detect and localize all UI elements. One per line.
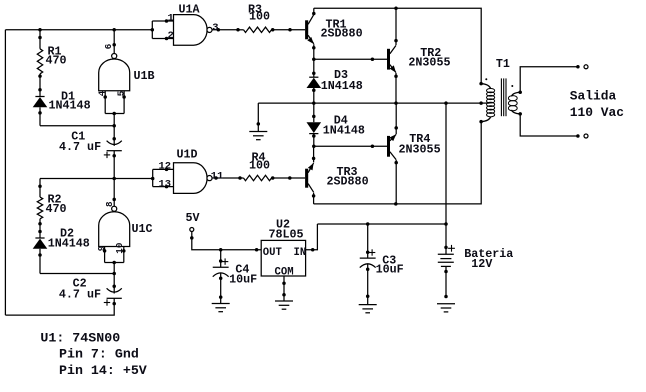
- ground C3: [359, 304, 377, 306]
- svg-text:Salida: Salida: [570, 89, 617, 104]
- wire battery bus from center rail to battery: [445, 103, 447, 247]
- node junction U1A input bracket: [151, 28, 155, 32]
- node junction C1/R2/U1C/U1D: [112, 177, 116, 181]
- capacitor C1: [112, 137, 116, 141]
- transformer T1 primary: [479, 82, 483, 86]
- transformer T1 secondary: [518, 91, 522, 95]
- op U1B output bubble pin 6: [112, 53, 117, 58]
- resistor R4: [238, 176, 242, 180]
- diode D4: [313, 103, 315, 122]
- wire D1 bottom to U1B inputs node: [40, 125, 114, 127]
- svg-text:1N4148: 1N4148: [49, 99, 91, 113]
- svg-text:4.7 uF: 4.7 uF: [59, 140, 101, 154]
- wire secondary bottom to Salida terminal: [520, 114, 578, 136]
- ground battery: [444, 295, 448, 299]
- svg-text:Pin 7: Gnd: Pin 7: Gnd: [59, 347, 139, 362]
- node junction R1 top: [38, 28, 42, 32]
- svg-text:2SD880: 2SD880: [327, 175, 369, 189]
- wire top-left rail from left bus to U1A inputs: [5, 29, 152, 31]
- svg-text:12: 12: [159, 160, 172, 172]
- pin U2 OUT dot: [255, 248, 259, 252]
- wire C3 to ground: [367, 268, 369, 305]
- diode D3: [313, 59, 315, 77]
- svg-text:110 Vac: 110 Vac: [570, 105, 624, 120]
- ground C4: [212, 303, 230, 305]
- svg-text:3: 3: [212, 22, 218, 34]
- wire left bus vertical: [4, 30, 6, 315]
- transistor TR1: [305, 20, 308, 39]
- wire center tap into coil: [481, 102, 489, 104]
- wire U1B inputs down to C1: [113, 114, 115, 140]
- svg-text:5V: 5V: [186, 211, 200, 225]
- transformer phase dot primary: [485, 78, 487, 80]
- node junction battery bus / U2 IN rail: [444, 222, 448, 226]
- svg-text:10: 10: [114, 243, 125, 254]
- wire center rail +12V / center tap: [258, 102, 481, 104]
- wire TR3 emitter node to TR4 base: [314, 145, 387, 147]
- svg-text:1N4148: 1N4148: [323, 123, 365, 137]
- terminal Salida bottom: [584, 134, 588, 138]
- svg-text:U1C: U1C: [132, 222, 153, 236]
- svg-text:9: 9: [96, 246, 107, 252]
- node junction C3 on IN rail: [366, 222, 370, 226]
- svg-text:100: 100: [249, 159, 270, 173]
- node junction U1B-inputs / D1 wire: [112, 124, 116, 128]
- node 5V terminal: [190, 228, 194, 232]
- wire D2 bottom to U1C inputs node: [40, 273, 114, 275]
- svg-text:1N4148: 1N4148: [321, 79, 363, 93]
- svg-text:78L05: 78L05: [269, 228, 304, 242]
- svg-text:1: 1: [168, 13, 174, 25]
- transformer T1 core: [500, 78, 502, 116]
- svg-text:U1B: U1B: [134, 69, 155, 83]
- svg-text:6: 6: [103, 44, 114, 50]
- wire C1 bottom to mid node: [113, 151, 115, 179]
- svg-text:5: 5: [115, 90, 126, 96]
- svg-text:Pin 14: +5V: Pin 14: +5V: [59, 363, 147, 378]
- resistor R3: [236, 28, 240, 32]
- svg-text:4: 4: [96, 90, 107, 96]
- wire U2 IN to rail: [306, 224, 318, 250]
- diode D1: [35, 96, 44, 98]
- terminal Salida top: [584, 65, 588, 69]
- wire TR1 collector rail to transformer top: [314, 8, 481, 83]
- diode D2: [35, 237, 44, 239]
- wire U2 IN rail: [317, 223, 446, 225]
- capacitor C4: [219, 259, 223, 263]
- op U1C output bubble pin 8: [112, 206, 117, 211]
- node junction battery bus on center rail: [444, 101, 448, 105]
- resistor R1: [39, 30, 41, 49]
- resistor R2: [39, 179, 41, 198]
- svg-text:1N4148: 1N4148: [48, 237, 90, 251]
- node junction U1C-inputs / D2 wire: [112, 272, 116, 276]
- op U1B input pins 4 5: [104, 91, 106, 114]
- svg-text:11: 11: [211, 170, 224, 182]
- svg-text:10uF: 10uF: [229, 272, 257, 286]
- ground near D4: [257, 103, 259, 131]
- op U2 regulator 78L05 box: [261, 240, 305, 276]
- op U1B gate body: [99, 59, 130, 91]
- op U1A output bubble pin 3: [207, 27, 212, 32]
- svg-text:U1A: U1A: [179, 3, 201, 17]
- svg-text:2N3055: 2N3055: [408, 56, 450, 70]
- wire secondary top to Salida terminal: [520, 67, 578, 93]
- node junction TR1 emitter / D3: [312, 57, 316, 61]
- transistor TR2: [387, 49, 390, 70]
- transistor TR4: [387, 136, 390, 157]
- wire TR1 emitter to TR2 base: [314, 58, 387, 60]
- node junction TR2 emitter on center rail: [394, 101, 398, 105]
- node junction D4 / TR3 emitter / TR4 base: [312, 145, 316, 149]
- svg-text:U1D: U1D: [177, 148, 198, 162]
- capacitor C3: [367, 224, 369, 258]
- svg-text:2: 2: [168, 30, 174, 42]
- svg-text:U1: 74SN00: U1: 74SN00: [40, 331, 120, 346]
- capacitor C2: [112, 285, 116, 289]
- svg-text:100: 100: [249, 10, 270, 24]
- svg-text:2SD880: 2SD880: [321, 27, 363, 41]
- op-amp U1A nand gate: [151, 21, 153, 39]
- op U1C input pins 9 10: [104, 247, 106, 263]
- svg-text:13: 13: [159, 178, 172, 190]
- wire mid rail R2 to U1D inputs: [40, 178, 153, 180]
- svg-text:OUT: OUT: [263, 247, 283, 259]
- svg-text:8: 8: [104, 201, 115, 207]
- wire bottom-left from left bus to C2 bottom: [5, 304, 114, 316]
- svg-text:IN: IN: [294, 247, 307, 259]
- op U1C gate body: [99, 212, 130, 247]
- wire U1C inputs down to C2: [113, 263, 115, 289]
- svg-text:T1: T1: [496, 57, 510, 71]
- svg-text:2N3055: 2N3055: [399, 143, 441, 157]
- op U1D output bubble pin 11: [207, 176, 212, 181]
- transformer phase dot secondary: [511, 85, 513, 87]
- node junction U1B output on top rail: [112, 28, 116, 32]
- svg-text:10uF: 10uF: [376, 262, 404, 276]
- node junction D3 D4 on center rail: [312, 101, 316, 105]
- svg-text:4.7 uF: 4.7 uF: [59, 288, 101, 302]
- ground U2 COM: [275, 300, 293, 302]
- op-amp U1D nand gate: [152, 169, 154, 186]
- transistor TR3: [305, 169, 308, 188]
- svg-text:12V: 12V: [471, 257, 492, 271]
- wire U2 COM to ground: [283, 276, 285, 301]
- node junction C4 on OUT wire: [219, 248, 223, 252]
- node junction U1D input bracket: [151, 177, 155, 181]
- svg-text:470: 470: [46, 54, 67, 68]
- svg-text:470: 470: [46, 202, 67, 216]
- wire C4 to ground: [220, 277, 222, 304]
- wire U1C output up to mid node: [113, 179, 115, 207]
- wire 5V to U2 OUT: [192, 232, 261, 250]
- battery Bateria 12V: [444, 246, 448, 250]
- wire TR3 collector rail to transformer bottom: [314, 122, 482, 204]
